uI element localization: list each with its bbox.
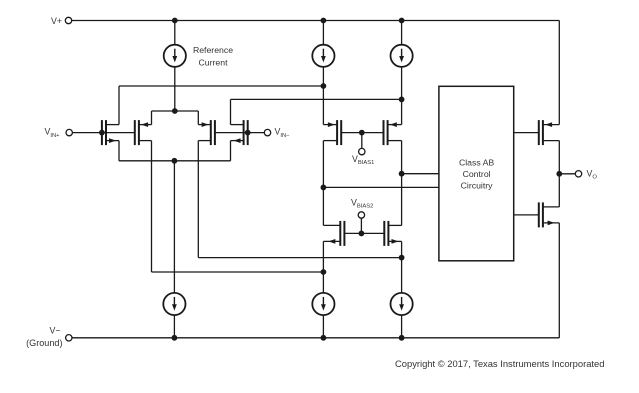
terminal VBIAS2: [358, 212, 364, 218]
node top rail / CS3: [399, 18, 405, 24]
wire rail A riser to M1 drain: [118, 86, 120, 125]
transistor Q5 VBIAS1 left: [340, 120, 342, 145]
wire VBIAS2 stem: [360, 218, 362, 233]
wire M2 drain drop: [151, 141, 153, 272]
terminal VO: [575, 171, 581, 177]
node right column mid: [399, 171, 405, 177]
transistor Q8 VBIAS2 right: [383, 221, 385, 246]
wire rail B: [231, 98, 402, 100]
svg-text:Reference: Reference: [193, 45, 233, 55]
svg-text:(Ground): (Ground): [26, 338, 62, 348]
node output: [556, 171, 562, 177]
terminal V- Ground: [66, 335, 72, 341]
svg-text:Class AB: Class AB: [459, 158, 494, 168]
current source CS2: [312, 45, 334, 67]
node M4 gate: [245, 130, 251, 136]
wire right column to Class AB box: [402, 173, 439, 175]
wire diff source rail: [119, 160, 231, 162]
transistor M4: [247, 120, 249, 145]
wire M1 source drop: [118, 141, 120, 161]
svg-text:V−: V−: [49, 325, 60, 335]
wire left column to Class AB box: [323, 186, 439, 188]
current source CS4: [163, 293, 185, 315]
wire left column to CS5: [322, 272, 324, 293]
wire CS2 top stem: [322, 21, 324, 45]
node tail: [172, 108, 178, 114]
wire rail A: [119, 85, 323, 87]
transistor M3: [214, 120, 216, 145]
wire CS1 to tail node: [174, 67, 176, 111]
wire diff rail to CS4: [173, 161, 175, 293]
transistor Q7 VBIAS2 left: [343, 221, 345, 246]
wire top V+ rail: [72, 20, 560, 22]
wire CS3 top stem: [401, 21, 403, 45]
wire tail riser M2: [151, 111, 153, 125]
wire CS5 to bottom rail: [322, 315, 324, 338]
wire box to Q9 gate: [514, 132, 539, 134]
wire bottom rail: [72, 337, 559, 339]
wire CS6 to bottom rail: [401, 315, 403, 338]
node bottom rail / CS5: [321, 335, 327, 341]
node top rail / CS2: [321, 18, 327, 24]
transistor Q9 output PMOS: [538, 120, 540, 145]
wire top rail right drop to Q9 source: [558, 21, 560, 125]
transistor Q10 output NMOS: [538, 202, 540, 227]
current source CS3: [391, 45, 413, 67]
wire output column: [558, 141, 560, 207]
wire VIN+ to gates: [72, 132, 134, 134]
node left column bottom: [321, 269, 327, 275]
node diff rail center: [172, 158, 178, 164]
node VBIAS1 gate: [359, 130, 365, 136]
wire rail B riser to M4 drain: [230, 99, 232, 124]
node left column mid: [321, 185, 327, 191]
wire CS4 to bottom rail: [173, 315, 175, 338]
node bottom rail / CS6: [399, 335, 405, 341]
node bottom rail / CS4: [172, 335, 178, 341]
svg-text:V+: V+: [51, 16, 62, 26]
svg-text:Circuitry: Circuitry: [461, 181, 494, 191]
wire VIN- to gates: [215, 132, 264, 134]
wire Q7 drain rise: [322, 187, 324, 225]
wire tail rail: [152, 110, 199, 112]
current source CS5: [312, 293, 334, 315]
terminal VIN+: [66, 129, 72, 135]
wire right column continues to Q8 drain: [401, 174, 403, 226]
wire VBIAS2 gate bus: [344, 232, 384, 234]
wire M3 drain to right column: [198, 257, 401, 259]
node rail B / CS3 column: [399, 97, 405, 103]
wire M3 drain drop: [197, 141, 199, 258]
transistor M2: [134, 120, 136, 145]
terminal V+: [65, 17, 71, 23]
transistor Q6 VBIAS1 right: [383, 120, 385, 145]
svg-text:Control: Control: [463, 169, 491, 179]
wire Q7 source drop: [322, 241, 324, 272]
wire M2 drain to left column: [152, 271, 324, 273]
svg-text:Current: Current: [199, 58, 229, 68]
node right column bottom: [399, 255, 405, 261]
wire VBIAS1 stem: [361, 133, 363, 149]
node M1 gate: [99, 130, 105, 136]
wire M4 source drop: [230, 141, 232, 161]
svg-text:Copyright © 2017, Texas Instru: Copyright © 2017, Texas Instruments Inco…: [395, 358, 604, 369]
wire CS3 down to Q6: [401, 67, 403, 125]
wire box to Q10 gate: [514, 214, 539, 216]
wire CS1 top stem: [174, 21, 176, 45]
terminal VBIAS1: [359, 148, 365, 154]
wire Q8 source drop: [401, 241, 403, 257]
node VBIAS2 gate: [359, 231, 365, 237]
wire Q10 source to bottom rail: [558, 223, 560, 338]
terminal VIN-: [264, 129, 270, 135]
wire right column to CS6: [401, 258, 403, 293]
current source Reference Current: [164, 45, 186, 67]
wire tail riser M3: [197, 111, 199, 125]
wire Q6 drain drop: [401, 141, 403, 174]
transistor M1: [101, 120, 103, 145]
wire VBIAS1 gate bus: [341, 132, 383, 134]
wire Q5 drain drop: [322, 141, 324, 188]
wire output to VO: [559, 173, 575, 175]
node top rail / reference current: [172, 18, 178, 24]
wire CS2 down to Q5: [322, 67, 324, 125]
current source CS6: [391, 293, 413, 315]
block Class AB Control Circuitry: [439, 86, 514, 260]
node rail A / CS2 column: [321, 83, 327, 89]
